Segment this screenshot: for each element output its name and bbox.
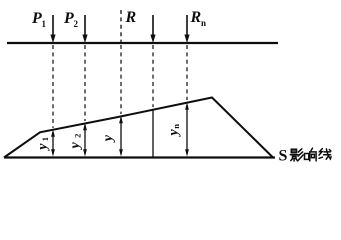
svg-text:1: 1	[40, 137, 50, 141]
label yn (rotated)	[167, 124, 182, 138]
svg-text:y: y	[101, 134, 116, 143]
ordinate double arrow y2	[83, 123, 87, 157]
svg-text:R: R	[125, 9, 137, 26]
svg-text:y: y	[36, 143, 51, 152]
ordinate double arrow yn	[185, 103, 189, 157]
svg-text:2: 2	[73, 134, 83, 138]
influence line baseline	[4, 156, 275, 158]
dashed projection line at x=121 (R)	[120, 45, 122, 114]
CJK character 影 (hand drawn)	[290, 149, 303, 161]
dashed projection line at x=187	[186, 45, 188, 100]
CJK character 响 (hand drawn)	[305, 148, 317, 161]
load arrow P2	[82, 15, 87, 43]
svg-text:n: n	[171, 124, 181, 129]
label y (rotated)	[101, 134, 116, 143]
label y2 (rotated)	[68, 134, 83, 151]
svg-text:n: n	[201, 18, 206, 28]
svg-text:2: 2	[74, 19, 79, 29]
dashed projection line at x=153	[152, 45, 154, 107]
unlabeled load arrow	[150, 15, 155, 43]
resultant R dashed line of action (above beam)	[120, 10, 122, 43]
svg-text:P: P	[63, 10, 74, 27]
ordinate double arrow y1	[51, 130, 55, 157]
beam line (top horizontal)	[7, 42, 278, 44]
label y1 (rotated)	[36, 137, 51, 152]
svg-text:y: y	[68, 142, 83, 151]
load arrow P1	[50, 15, 55, 43]
influence line (triangle outline)	[4, 98, 273, 158]
svg-text:P: P	[31, 10, 42, 27]
CJK character 线 (hand drawn)	[319, 149, 331, 160]
svg-text:R: R	[190, 9, 202, 26]
svg-text:1: 1	[42, 19, 47, 29]
dashed projection line at x=53	[52, 45, 54, 128]
svg-text:S: S	[279, 148, 288, 165]
load arrow Rn	[184, 15, 189, 43]
plain ordinate line at x=153	[152, 109, 154, 157]
svg-text:y: y	[167, 129, 182, 138]
ordinate double arrow y (under R)	[119, 116, 123, 157]
dashed projection line at x=85	[84, 45, 86, 121]
